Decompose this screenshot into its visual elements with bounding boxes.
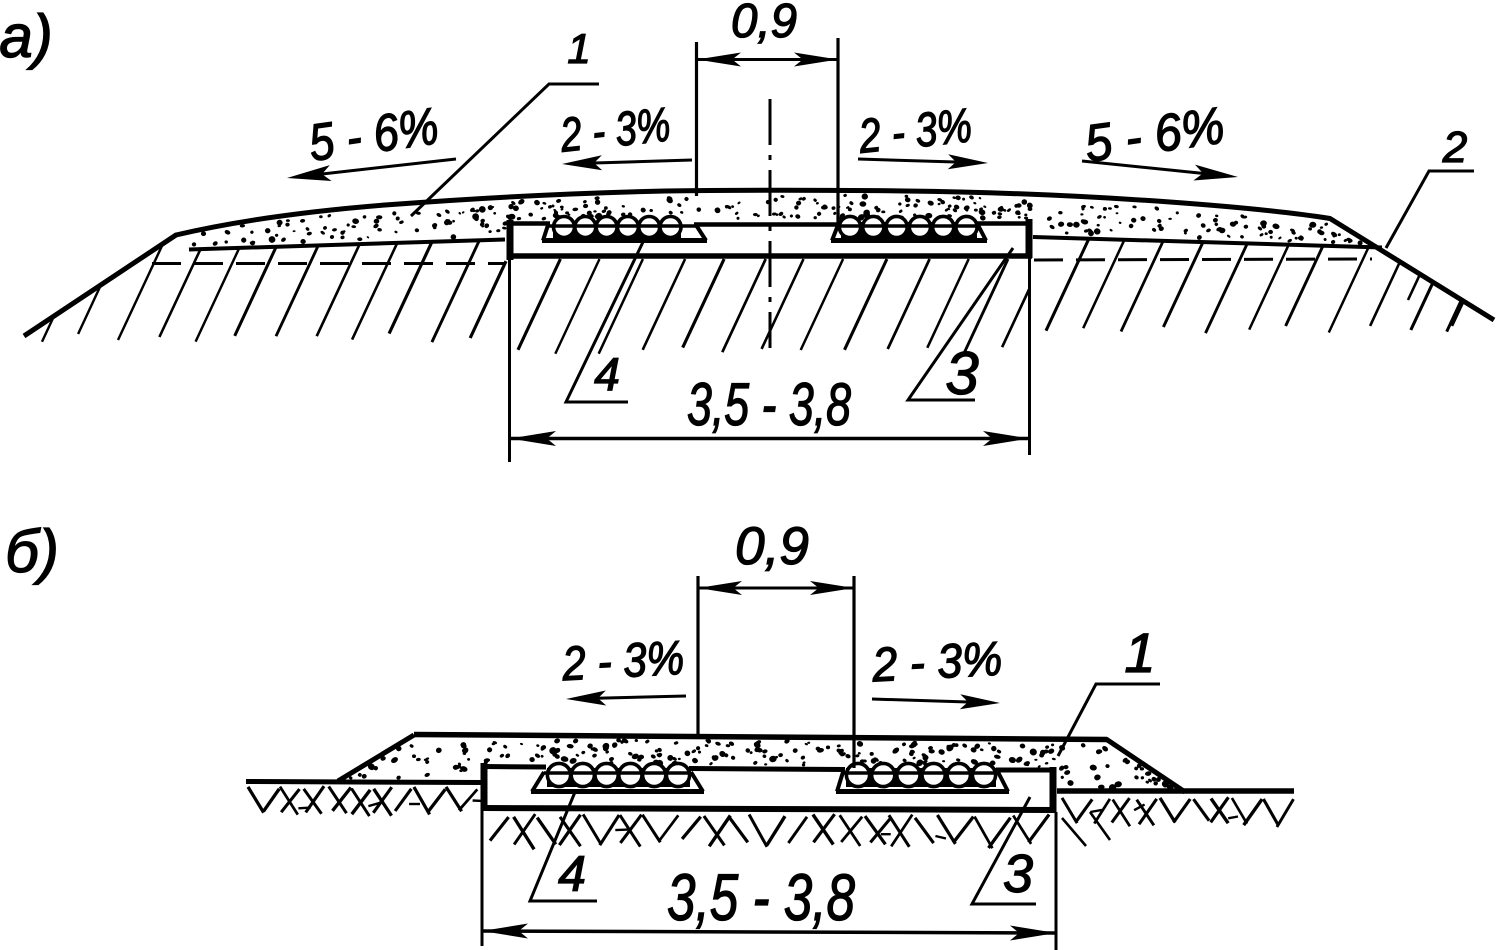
svg-text:2 - 3%: 2 - 3% [557,98,673,162]
svg-text:3: 3 [1003,844,1033,904]
svg-text:0,9: 0,9 [731,0,797,48]
svg-text:3,5 - 3,8: 3,5 - 3,8 [687,371,851,438]
svg-text:2 - 3%: 2 - 3% [856,99,975,164]
svg-text:5 - 6%: 5 - 6% [1081,97,1228,174]
svg-text:1: 1 [1124,621,1155,684]
svg-text:0,9: 0,9 [735,517,809,576]
svg-text:2 - 3%: 2 - 3% [560,632,685,691]
svg-text:3: 3 [945,340,978,407]
svg-text:2: 2 [1442,123,1467,172]
svg-text:б): б) [5,518,59,585]
svg-text:4: 4 [594,348,620,400]
svg-text:a): a) [0,3,53,70]
svg-text:2 - 3%: 2 - 3% [870,633,1004,693]
svg-text:1: 1 [567,25,590,72]
svg-text:4: 4 [558,846,586,902]
svg-text:3,5 - 3,8: 3,5 - 3,8 [667,860,855,934]
